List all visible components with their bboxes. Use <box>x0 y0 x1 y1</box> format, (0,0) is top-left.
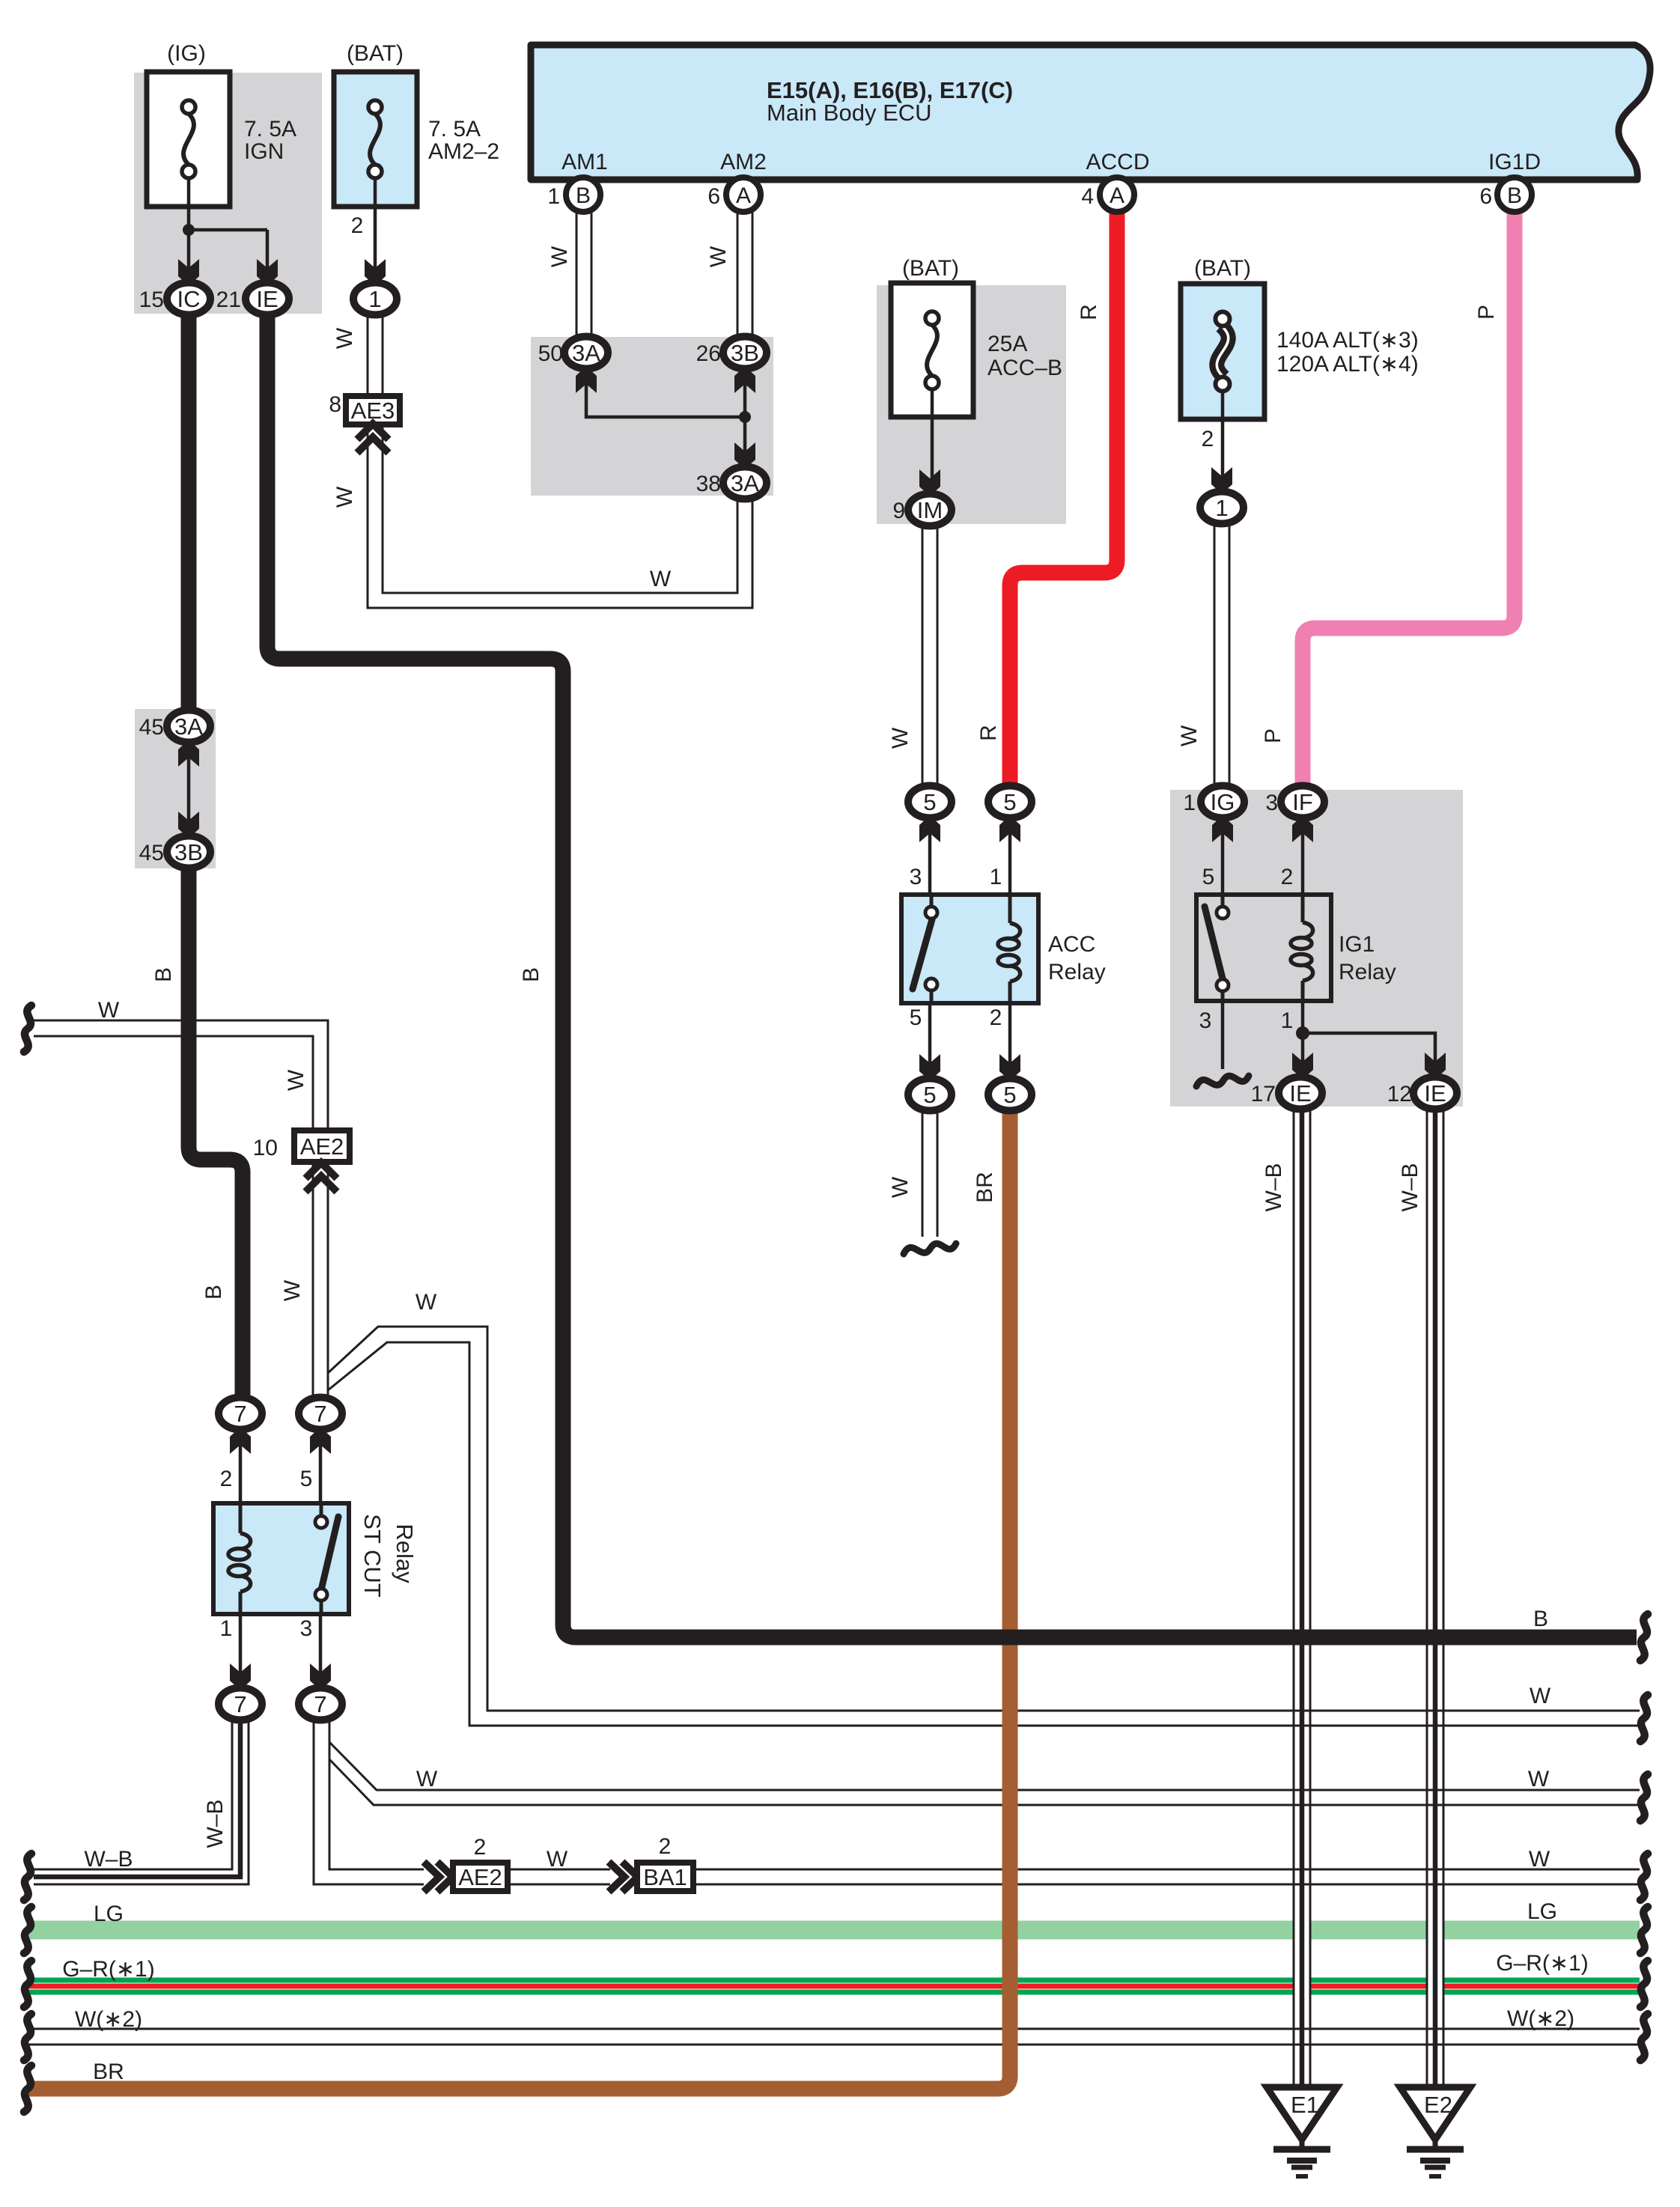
svg-text:140A ALT(∗3): 140A ALT(∗3) <box>1276 328 1419 353</box>
svg-text:W–B: W–B <box>1261 1163 1286 1211</box>
svg-text:IE: IE <box>1289 1080 1311 1106</box>
svg-text:BR: BR <box>973 1172 997 1203</box>
svg-text:W: W <box>888 727 913 749</box>
svg-text:3: 3 <box>300 1616 313 1641</box>
svg-text:IE: IE <box>1424 1080 1446 1106</box>
svg-text:B: B <box>519 967 544 982</box>
svg-text:A: A <box>1110 183 1124 208</box>
svg-text:W: W <box>416 1290 437 1315</box>
svg-text:W–B: W–B <box>1398 1163 1422 1211</box>
svg-text:Relay: Relay <box>1339 960 1396 984</box>
svg-text:7: 7 <box>314 1401 326 1427</box>
svg-text:W(∗2): W(∗2) <box>1507 2006 1574 2031</box>
svg-text:Relay: Relay <box>1048 960 1106 984</box>
svg-text:W: W <box>547 246 572 267</box>
svg-text:W: W <box>284 1069 308 1091</box>
svg-text:BA1: BA1 <box>643 1864 687 1890</box>
svg-text:(BAT): (BAT) <box>902 256 959 281</box>
svg-text:1: 1 <box>990 865 1002 889</box>
svg-text:45: 45 <box>139 841 164 865</box>
svg-text:3A: 3A <box>174 713 203 740</box>
svg-text:17: 17 <box>1251 1082 1276 1106</box>
svg-text:IE: IE <box>256 286 278 312</box>
svg-text:8: 8 <box>329 392 341 417</box>
svg-text:(BAT): (BAT) <box>347 41 404 66</box>
svg-text:IG1: IG1 <box>1339 932 1375 957</box>
svg-text:W: W <box>706 246 731 267</box>
svg-text:AM2: AM2 <box>720 150 767 174</box>
svg-text:3: 3 <box>910 865 922 889</box>
svg-text:W: W <box>650 567 672 591</box>
svg-text:ST CUT: ST CUT <box>359 1514 386 1597</box>
svg-text:W: W <box>547 1847 568 1872</box>
svg-text:1: 1 <box>1281 1008 1294 1033</box>
svg-text:15: 15 <box>139 287 164 312</box>
svg-text:ACCD: ACCD <box>1086 150 1149 174</box>
svg-text:Relay: Relay <box>392 1523 418 1583</box>
svg-text:26: 26 <box>696 341 721 366</box>
svg-text:ACC: ACC <box>1048 932 1095 957</box>
svg-text:IC: IC <box>177 286 201 312</box>
svg-text:B: B <box>1507 183 1522 208</box>
svg-text:B: B <box>151 967 176 982</box>
svg-text:1: 1 <box>1183 791 1196 815</box>
svg-text:Main Body ECU: Main Body ECU <box>767 100 932 126</box>
svg-text:5: 5 <box>1003 789 1016 815</box>
svg-text:6: 6 <box>707 184 720 209</box>
svg-text:IF: IF <box>1292 789 1313 815</box>
svg-text:R: R <box>1077 304 1101 320</box>
svg-text:A: A <box>736 183 751 208</box>
svg-text:3A: 3A <box>731 470 759 496</box>
svg-text:5: 5 <box>923 789 936 815</box>
svg-text:45: 45 <box>139 715 164 740</box>
svg-text:IG: IG <box>1211 789 1235 815</box>
svg-text:9: 9 <box>892 499 905 523</box>
svg-text:AE2: AE2 <box>300 1133 344 1160</box>
svg-text:38: 38 <box>696 472 721 496</box>
svg-text:25A: 25A <box>987 332 1027 356</box>
svg-text:3B: 3B <box>731 340 759 366</box>
svg-text:W–B: W–B <box>203 1799 228 1848</box>
svg-text:LG: LG <box>1527 1899 1557 1924</box>
svg-text:7: 7 <box>234 1691 246 1717</box>
svg-text:4: 4 <box>1081 184 1094 209</box>
svg-text:2: 2 <box>474 1835 487 1860</box>
svg-text:2: 2 <box>990 1005 1002 1030</box>
svg-text:3: 3 <box>1265 791 1278 815</box>
svg-text:G–R(∗1): G–R(∗1) <box>62 1957 155 1982</box>
svg-text:W: W <box>280 1279 305 1301</box>
svg-text:IGN: IGN <box>244 139 284 164</box>
svg-text:W: W <box>416 1767 438 1792</box>
svg-text:LG: LG <box>94 1902 124 1926</box>
svg-text:IM: IM <box>917 497 943 523</box>
svg-text:W: W <box>332 486 357 508</box>
svg-text:3B: 3B <box>174 839 203 865</box>
svg-text:7. 5A: 7. 5A <box>428 117 481 141</box>
svg-text:W(∗2): W(∗2) <box>75 2007 142 2032</box>
svg-text:2: 2 <box>351 213 364 238</box>
svg-text:W: W <box>1529 1847 1550 1872</box>
svg-text:W: W <box>1177 725 1202 746</box>
svg-text:BR: BR <box>93 2060 124 2084</box>
svg-text:2: 2 <box>1202 427 1214 451</box>
svg-text:7: 7 <box>314 1691 326 1717</box>
svg-text:5: 5 <box>1003 1082 1016 1108</box>
svg-text:7: 7 <box>234 1401 246 1427</box>
svg-text:E2: E2 <box>1424 2092 1452 2118</box>
svg-text:5: 5 <box>910 1005 922 1030</box>
svg-text:W–B: W–B <box>84 1847 133 1872</box>
svg-text:W: W <box>1528 1767 1550 1792</box>
svg-text:2: 2 <box>1281 865 1294 889</box>
svg-text:W: W <box>332 327 357 349</box>
svg-text:(BAT): (BAT) <box>1194 256 1251 281</box>
svg-text:AE2: AE2 <box>458 1864 502 1890</box>
svg-text:W: W <box>1530 1684 1551 1708</box>
svg-text:120A ALT(∗4): 120A ALT(∗4) <box>1276 352 1419 377</box>
svg-text:21: 21 <box>216 287 241 312</box>
svg-text:12: 12 <box>1387 1082 1412 1106</box>
svg-text:(IG): (IG) <box>167 41 206 66</box>
svg-text:B: B <box>576 183 591 208</box>
svg-text:AM1: AM1 <box>561 150 608 174</box>
svg-text:5: 5 <box>300 1467 313 1491</box>
svg-text:1: 1 <box>547 184 560 209</box>
svg-text:R: R <box>976 725 1001 741</box>
svg-text:B: B <box>1533 1607 1548 1631</box>
svg-text:P: P <box>1474 305 1499 320</box>
svg-text:1: 1 <box>220 1616 233 1641</box>
svg-text:B: B <box>201 1285 226 1300</box>
svg-text:50: 50 <box>538 341 563 366</box>
svg-text:AM2–2: AM2–2 <box>428 139 499 164</box>
svg-text:7. 5A: 7. 5A <box>244 117 296 141</box>
svg-text:W: W <box>98 998 120 1023</box>
svg-text:10: 10 <box>253 1136 278 1160</box>
svg-text:ACC–B: ACC–B <box>987 356 1062 380</box>
svg-text:E1: E1 <box>1291 2092 1319 2118</box>
svg-text:5: 5 <box>923 1082 936 1108</box>
svg-text:5: 5 <box>1202 865 1215 889</box>
svg-text:G–R(∗1): G–R(∗1) <box>1496 1951 1589 1976</box>
svg-text:3A: 3A <box>572 340 600 366</box>
svg-text:3: 3 <box>1199 1008 1212 1033</box>
svg-text:IG1D: IG1D <box>1488 150 1541 174</box>
svg-text:1: 1 <box>368 286 381 312</box>
svg-text:P: P <box>1261 728 1285 743</box>
svg-text:2: 2 <box>220 1467 233 1491</box>
svg-text:1: 1 <box>1215 495 1228 521</box>
svg-text:W: W <box>888 1176 913 1198</box>
svg-text:2: 2 <box>659 1834 672 1859</box>
svg-text:6: 6 <box>1479 184 1492 209</box>
